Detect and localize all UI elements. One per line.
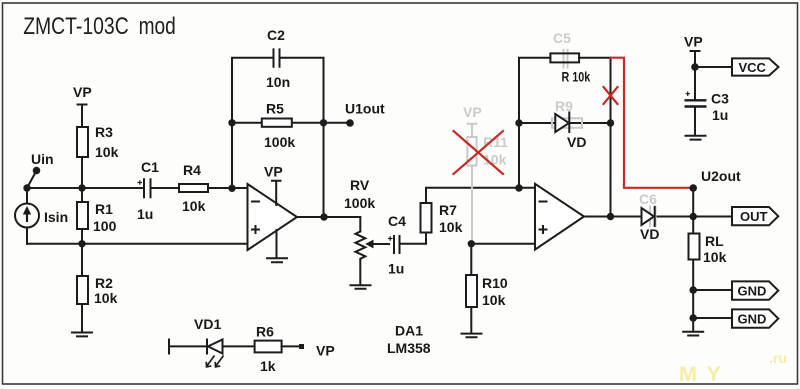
resistor R6 — [255, 324, 282, 375]
potentiometer RV — [344, 177, 389, 284]
svg-text:10k: 10k — [182, 198, 206, 214]
junction R1/R2 node — [78, 240, 85, 247]
feedback wire left vertical (C2/R5 loop) — [232, 58, 324, 217]
svg-text:C5: C5 — [553, 30, 571, 46]
svg-text:M Y: M Y — [679, 362, 723, 386]
svg-text:10k: 10k — [95, 144, 119, 160]
svg-text:ZMCT-103C: ZMCT-103C — [23, 13, 129, 40]
wire U1 output — [297, 216, 360, 218]
ground (C3) — [686, 136, 706, 140]
junction R10 node — [468, 240, 475, 247]
terminal VP (LED) — [299, 343, 335, 359]
svg-text:R4: R4 — [183, 162, 201, 178]
svg-text:R1: R1 — [95, 201, 113, 217]
svg-text:DA1: DA1 — [395, 323, 423, 339]
red X over R11 — [454, 131, 504, 174]
svg-text:mod: mod — [139, 13, 176, 40]
wire LED to R6 — [223, 345, 255, 347]
flag GND 2 — [732, 309, 778, 327]
node U1out — [324, 101, 386, 127]
feedback loop U2: left vertical and top wire — [519, 58, 611, 217]
svg-text:U2out: U2out — [701, 168, 741, 184]
svg-text:1k: 1k — [260, 358, 276, 374]
resistor R3 — [77, 124, 119, 160]
junction R3/R1 node — [78, 184, 85, 191]
svg-text:VD: VD — [640, 226, 659, 242]
svg-text:R10: R10 — [482, 275, 508, 291]
svg-text:C6: C6 — [639, 191, 657, 207]
svg-text:OUT: OUT — [740, 209, 768, 224]
op-amp U1 — [248, 184, 298, 250]
junction VCC node — [691, 63, 699, 71]
junction inverting input U2 — [515, 184, 522, 191]
flag GND 1 — [732, 281, 778, 299]
svg-text:1u: 1u — [388, 261, 404, 277]
svg-text:C3: C3 — [711, 91, 729, 107]
svg-text:.ru: .ru — [769, 350, 787, 366]
resistor R5 — [232, 101, 324, 151]
svg-text:GND: GND — [738, 312, 767, 327]
junction left node — [23, 184, 30, 191]
junction U2 output — [607, 213, 614, 220]
wire C1 to R4 — [151, 187, 180, 189]
svg-text:C4: C4 — [388, 213, 406, 229]
wire R3 to node — [81, 157, 83, 188]
resistor R11 (removed, grey) — [463, 104, 508, 244]
svg-text:1u: 1u — [712, 107, 728, 123]
wire to GND flag 2 — [693, 317, 732, 319]
resistor R 10k (mod, in place of C5) — [550, 53, 590, 84]
diode row: junctions — [515, 119, 522, 126]
svg-text:10k: 10k — [703, 249, 727, 265]
svg-text:VD1: VD1 — [194, 316, 221, 332]
svg-text:VP: VP — [264, 164, 283, 180]
junction OUT node — [690, 213, 697, 220]
diode VD (feedback) — [555, 113, 586, 151]
svg-text:RL: RL — [705, 233, 724, 249]
supply VP (op-amp U1) — [264, 164, 283, 206]
svg-text:C1: C1 — [141, 159, 159, 175]
node U2out — [689, 168, 741, 217]
terminal bar (LED input) — [168, 340, 170, 354]
capacitor C4 — [388, 213, 406, 277]
wire to GND flag 1 — [693, 289, 732, 291]
svg-text:VD: VD — [567, 134, 586, 150]
svg-text:C2: C2 — [267, 27, 285, 43]
svg-text:LM358: LM358 — [387, 340, 431, 356]
capacitor C6 (replaced, grey remnant) — [639, 191, 657, 226]
svg-text:R6: R6 — [256, 324, 274, 340]
svg-text:RV: RV — [350, 177, 370, 193]
svg-text:10k: 10k — [94, 290, 118, 306]
capacitor C2 — [266, 27, 290, 90]
wire non-inverting net U2 — [471, 243, 535, 245]
capacitor C5 (replaced, grey remnant) — [553, 30, 571, 68]
junction GND node 2 — [689, 314, 697, 322]
wire non-inverting net — [27, 243, 248, 245]
svg-text:1u: 1u — [137, 206, 153, 222]
svg-text:10n: 10n — [266, 74, 290, 90]
wire to LED — [170, 345, 207, 347]
svg-text:100: 100 — [93, 218, 117, 234]
svg-text:GND: GND — [738, 284, 767, 299]
junction GND node 1 — [689, 286, 697, 294]
resistor R10 — [466, 244, 508, 333]
svg-text:VCC: VCC — [739, 60, 767, 75]
flag OUT — [732, 207, 778, 225]
ground (RL) — [683, 332, 703, 336]
svg-text:R 10k: R 10k — [562, 69, 591, 85]
capacitor C3 — [685, 67, 730, 135]
svg-text:R2: R2 — [95, 275, 113, 291]
junction feedback/inverting input — [228, 185, 235, 192]
wire main input net — [27, 187, 143, 189]
resistor R7 — [421, 188, 536, 235]
svg-text:VP: VP — [684, 34, 703, 50]
svg-text:R7: R7 — [439, 202, 457, 218]
wire U2 output row — [584, 216, 732, 218]
wire VCC — [695, 66, 732, 68]
svg-text:U1out: U1out — [345, 101, 385, 117]
junction U1 output — [320, 213, 327, 220]
resistor R9 (replaced, grey remnant) — [552, 98, 582, 128]
svg-text:Isin: Isin — [44, 209, 68, 225]
current source Isin — [15, 188, 68, 244]
resistor R1 — [77, 188, 117, 244]
flag VCC — [732, 58, 779, 75]
wire diode feedback row — [519, 122, 611, 124]
capacitor C1 — [137, 159, 159, 222]
svg-text:VP: VP — [316, 343, 335, 359]
svg-text:VP: VP — [73, 84, 92, 100]
wire R4 to op-amp — [208, 187, 248, 189]
svg-text:VP: VP — [463, 104, 482, 120]
wire C4 to R7 — [400, 233, 427, 244]
resistor R2 — [77, 244, 118, 332]
svg-text:10k: 10k — [482, 292, 506, 308]
svg-text:R5: R5 — [266, 101, 284, 117]
junction R5 left — [228, 119, 235, 126]
ground (op-amp U1) — [267, 230, 287, 262]
svg-text:100k: 100k — [264, 134, 295, 150]
svg-text:R3: R3 — [95, 124, 113, 140]
red mod wire — [611, 58, 694, 188]
watermark — [679, 350, 787, 386]
supply VP (VCC rail) — [684, 34, 703, 68]
resistor RL — [689, 217, 727, 332]
supply VP (left rail) — [73, 84, 92, 127]
diode VD (output) — [640, 207, 659, 242]
junction R5 right — [320, 119, 327, 126]
wire R6 to VP terminal — [282, 345, 300, 347]
svg-text:R9: R9 — [555, 98, 573, 114]
label DA1 LM358 — [387, 323, 431, 357]
svg-text:10k: 10k — [439, 219, 463, 235]
ground (R2) — [72, 333, 92, 337]
ground (R10) — [462, 334, 482, 338]
red X cut on feedback wire — [604, 87, 618, 104]
svg-text:100k: 100k — [344, 195, 375, 211]
resistor R4 — [179, 162, 208, 214]
node Uin — [27, 151, 54, 188]
svg-text:Uin: Uin — [31, 151, 54, 167]
ground (RV) — [351, 285, 371, 289]
LED VD1 — [194, 316, 224, 367]
op-amp U2 — [535, 184, 584, 250]
